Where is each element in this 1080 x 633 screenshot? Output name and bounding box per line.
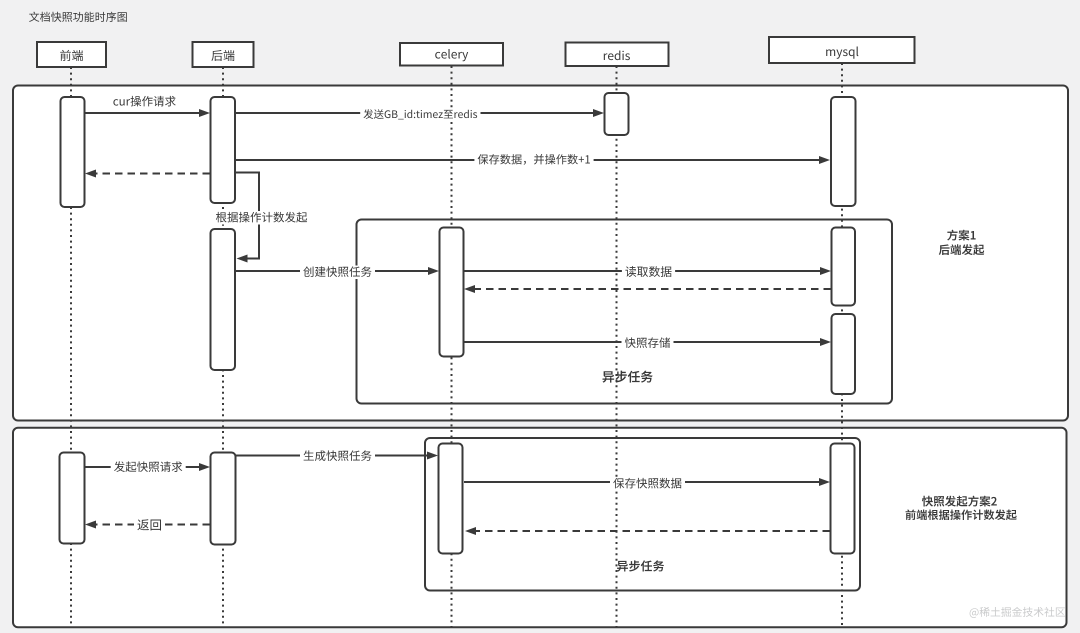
- label 快照存储: [622, 337, 674, 351]
- activation celery scheme1: [440, 228, 464, 357]
- return dashed (后端→前端): [96, 173, 210, 175]
- actor label redis: [604, 50, 630, 60]
- label 发送GB_id:timez至redis: [360, 108, 480, 122]
- label 保存数据，并操作数+1: [474, 153, 593, 167]
- diagram title 文档快照功能时序图: [29, 12, 127, 22]
- label 返回: [134, 519, 165, 533]
- message 创建快照任务 (后端→celery): [236, 270, 429, 272]
- actor box 后端: [193, 42, 254, 67]
- actor box redis: [566, 43, 669, 67]
- note 异步任务 scheme1: [602, 371, 652, 383]
- label 生成快照任务: [300, 450, 375, 464]
- note 异步任务 scheme2: [617, 560, 664, 571]
- lifeline celery: [451, 66, 453, 627]
- label 根据操作计数发起: [213, 211, 311, 225]
- note 前端根据操作计数发起: [906, 509, 1017, 520]
- label 读取数据: [622, 266, 675, 280]
- message 读取数据 (celery→mysql): [464, 270, 821, 272]
- message 发送GB_id:timez至redis (后端→redis): [236, 112, 594, 114]
- message cur操作请求 (前端→后端): [85, 112, 200, 114]
- activation 后端 first scheme1: [211, 97, 236, 203]
- actor label 后端: [211, 50, 234, 61]
- actor box mysql: [769, 37, 915, 63]
- lifeline 后端: [222, 67, 224, 627]
- activation 前端 scheme1: [61, 97, 85, 207]
- label 发起快照请求: [111, 461, 186, 475]
- message 发起快照请求 (前端→后端): [85, 466, 200, 468]
- label 创建快照任务: [300, 266, 375, 280]
- actor label mysql: [826, 46, 858, 58]
- return dashed 返回 (后端→前端): [96, 524, 210, 526]
- return dashed (mysql→celery): [476, 530, 830, 532]
- lifeline redis: [616, 66, 618, 627]
- label 保存快照数据: [610, 477, 685, 491]
- lifeline mysql: [841, 63, 843, 627]
- activation mysql scheme2: [831, 444, 855, 554]
- activation 后端 second scheme1: [211, 229, 236, 370]
- async-task frame scheme1: [357, 220, 893, 404]
- message 保存数据，并操作数+1 (后端→mysql): [236, 159, 820, 161]
- activation mysql second scheme1: [832, 228, 856, 306]
- note 快照发起方案2: [922, 496, 997, 507]
- message 保存快照数据 (celery→mysql): [464, 481, 820, 483]
- note 方案1: [947, 230, 976, 241]
- async-task frame scheme2: [425, 438, 860, 591]
- return dashed (mysql→celery): [475, 288, 831, 290]
- message 生成快照任务 (后端→celery): [236, 455, 428, 457]
- activation celery scheme2: [439, 444, 463, 554]
- message 快照存储 (celery→mysql): [464, 341, 821, 343]
- lifeline 前端: [70, 67, 72, 627]
- activation mysql third scheme1: [832, 314, 856, 394]
- actor box celery: [400, 43, 503, 66]
- frame 方案2 (frontend-initiated): [13, 428, 1067, 628]
- activation mysql first scheme1: [831, 97, 856, 206]
- actor label celery: [435, 49, 468, 61]
- actor box 前端: [37, 42, 106, 67]
- activation 前端 scheme2: [60, 453, 85, 544]
- label cur操作请求: [113, 96, 175, 107]
- self message 根据操作计数发起 (后端 loop): [236, 173, 259, 259]
- frame 方案1 (backend-initiated): [13, 86, 1068, 421]
- activation 后端 scheme2: [211, 453, 236, 545]
- activation redis scheme1: [605, 93, 629, 135]
- watermark @稀土掘金技术社区: [970, 607, 1065, 618]
- note 后端发起: [939, 244, 984, 255]
- actor label 前端: [60, 50, 83, 61]
